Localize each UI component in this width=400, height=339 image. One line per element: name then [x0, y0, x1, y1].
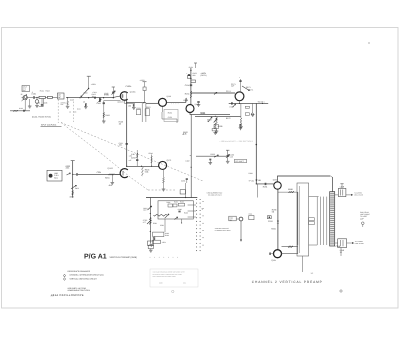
resistor R292 [153, 237, 155, 241]
svg-text:+a: +a [201, 208, 203, 210]
wire to lower deflection plate [347, 242, 354, 244]
attenuator block box [58, 93, 65, 99]
svg-text:TO CH 1: TO CH 1 [258, 100, 265, 103]
dashed switch link vertical [57, 100, 59, 124]
transistor Q101 input follower [35, 100, 39, 104]
input connector J2 ring [23, 95, 28, 100]
svg-text:REFERENCE DRAWINGS: REFERENCE DRAWINGS [68, 270, 91, 273]
grid stopper cluster [99, 97, 101, 102]
svg-text:(DUAL TRACE SYNC): (DUAL TRACE SYNC) [32, 115, 51, 118]
wire switch top bus [146, 197, 197, 199]
svg-text:DC SHIFT: DC SHIFT [236, 160, 245, 163]
wire trigger pickoff TO CH 1 [229, 102, 269, 104]
capacitor C154 marks [190, 84, 192, 86]
plus registration mark [339, 289, 343, 293]
svg-text:.001: .001 [119, 144, 123, 147]
output box inner rail [299, 186, 301, 253]
diode CR101 branch [41, 99, 43, 105]
tube V103A cathode follower [120, 92, 127, 101]
wire VAR row to tube [78, 173, 120, 175]
delay line feed wires [316, 197, 318, 245]
wiper arrow right [174, 217, 178, 220]
neon lamp B172 [251, 113, 253, 115]
assembly label box [22, 86, 30, 92]
variable capacitor C103A [112, 86, 115, 88]
resistor R289 [149, 218, 151, 225]
resistor R242 into tube [109, 174, 115, 176]
resistor R112 column [145, 103, 147, 122]
svg-text:R241: R241 [105, 177, 110, 180]
capacitor C286 [178, 210, 180, 212]
svg-text:5-25: 5-25 [230, 155, 233, 158]
svg-text:C281: C281 [160, 224, 164, 227]
svg-text:BAL: BAL [54, 177, 58, 180]
grid network R243 C243 [136, 150, 138, 166]
svg-text:Q173: Q173 [167, 159, 172, 162]
pin bracket ticks [202, 200, 204, 202]
svg-text:SEMICONDUCTOR TYPES: SEMICONDUCTOR TYPES [68, 289, 91, 292]
wire tube plate up [126, 92, 128, 99]
wire Q143 collector right [166, 101, 186, 103]
wire Q194 to output box [282, 253, 298, 255]
resistor R151 box [191, 80, 196, 83]
bar to L248 connector [335, 194, 339, 196]
wire box bottom stub [301, 256, 303, 272]
range resistor boxes row [168, 204, 173, 207]
svg-text:R281: R281 [153, 222, 157, 225]
range box label [229, 216, 236, 221]
+225V feed VAR [71, 160, 75, 162]
delay line top jogs [309, 196, 319, 198]
svg-text:C193: C193 [268, 220, 273, 223]
svg-text:Q-243: Q-243 [107, 167, 112, 170]
svg-text:R154: R154 [185, 93, 190, 96]
tube V243 half [120, 169, 128, 178]
svg-text:R112: R112 [146, 106, 150, 109]
cathode network C106 R106 [103, 101, 105, 122]
wire gain bus [195, 115, 241, 117]
wire bias row [126, 165, 159, 167]
svg-text:Q194: Q194 [271, 259, 276, 262]
wire Q163 emitter down and right [190, 113, 230, 115]
svg-text:R159: R159 [211, 153, 215, 156]
resistor R111 column [141, 103, 143, 122]
wire L249 down [340, 248, 342, 257]
series resistor box R191 [249, 216, 254, 220]
svg-text:C105: C105 [70, 99, 74, 102]
termination network boxes [309, 218, 315, 221]
neon lamp B191 [239, 217, 243, 221]
resistor R246 column [151, 155, 153, 167]
svg-text:+225V: +225V [140, 79, 146, 82]
transistor Q194 output [274, 250, 282, 258]
gain adj pot [148, 206, 152, 210]
svg-text:C152: C152 [168, 116, 172, 119]
svg-text:TP 184: TP 184 [249, 180, 254, 183]
pot R171 diagonal [242, 86, 250, 91]
svg-text:2.2k: 2.2k [66, 167, 70, 170]
delay line hatched bar [330, 192, 335, 246]
resistor R227 [72, 191, 74, 195]
svg-text:R156: R156 [184, 99, 189, 102]
front panel VAR control [47, 170, 62, 181]
svg-text:Q143: Q143 [167, 95, 171, 98]
svg-text:-150V: -150V [69, 195, 75, 198]
svg-text:C248: C248 [336, 245, 341, 248]
svg-text:P/G A1: P/G A1 [84, 253, 107, 261]
attenuator series resistor [153, 214, 167, 216]
wire to upper deflection plate [346, 194, 353, 196]
svg-text:49.9: 49.9 [109, 184, 113, 187]
resistor R245 vertical [142, 167, 144, 176]
svg-text:C174: C174 [226, 90, 231, 93]
svg-text:CHANNEL 2 ATTENUATOR CIRCUIT: CHANNEL 2 ATTENUATOR CIRCUIT (A2) [70, 274, 104, 277]
left bus of switch [149, 198, 151, 244]
input connector J2 [24, 95, 27, 100]
capacitor C171 above Q174 [240, 79, 242, 92]
wiper arrow and capacitor C222 [67, 173, 71, 175]
svg-text:(DCPL): (DCPL) [201, 74, 207, 77]
small box R184A [180, 190, 185, 194]
svg-text:R103: R103 [46, 89, 50, 92]
output amplifier box [297, 183, 309, 256]
diode CR190 on rail [277, 221, 279, 223]
svg-text:R246: R246 [149, 152, 153, 155]
capacitor C156 with ground [197, 101, 199, 103]
dashed switch link to connector [61, 123, 203, 182]
emitter resistor R178 with ground [163, 169, 165, 177]
capacitor C104 on wire [94, 97, 96, 99]
dotted separator row [149, 256, 152, 259]
resistor R176 box [245, 113, 249, 116]
capacitor C181 [264, 183, 266, 185]
svg-text:R150: R150 [189, 66, 193, 69]
coil marks L249 [340, 240, 342, 246]
ground under R292 [150, 243, 154, 245]
input grid resistor to ground [85, 103, 87, 106]
wire C103 branch down [42, 99, 44, 107]
wire driver bus into Q184 [256, 183, 274, 185]
coax symbol [362, 222, 365, 225]
svg-text:C181: C181 [257, 179, 262, 182]
dc shift boxed label [235, 159, 247, 162]
small box bottom left [148, 245, 153, 248]
svg-text:5.6k: 5.6k [145, 170, 149, 173]
tiny dot artifact [368, 42, 369, 43]
svg-text:R188: R188 [288, 188, 293, 191]
svg-text:820: 820 [193, 74, 196, 77]
step att bal pot [147, 220, 151, 224]
capacitor C101 [33, 96, 35, 98]
svg-text:R171: R171 [246, 86, 251, 89]
svg-text:56: 56 [272, 211, 274, 214]
svg-text:INPUT COUPLING: INPUT COUPLING [41, 124, 57, 127]
svg-text:Q184: Q184 [273, 178, 278, 181]
capacitor C184 on feedback line [186, 178, 188, 180]
svg-text:CHANNEL 2 VERTICAL PREAMP: CHANNEL 2 VERTICAL PREAMP [252, 280, 323, 284]
decoupling stub T [194, 62, 197, 64]
feed diagonal into grid [81, 89, 89, 97]
pot R164 diagonal [208, 117, 212, 122]
ground below R165 [216, 129, 218, 132]
wire dc shift row [196, 155, 226, 157]
svg-text:R194: R194 [271, 228, 276, 231]
svg-text:180: 180 [128, 104, 131, 107]
wire cathode bus [104, 100, 121, 102]
capacitor C153 top [190, 68, 192, 105]
pot arrow inside switch [165, 214, 169, 218]
resistor R177 with ground [240, 103, 242, 118]
svg-text:C177: C177 [230, 105, 235, 108]
box to pins stub wires [188, 204, 196, 206]
svg-text:49.1u: 49.1u [50, 295, 54, 297]
svg-text:R181: R181 [263, 186, 268, 189]
svg-text:C103: C103 [104, 92, 108, 95]
interconnecting plug pins column [195, 198, 198, 201]
svg-text:≈ 100 kHz ADJUST — SEE SEC: ≈ 100 kHz ADJUST — SEE SECTION 5 [219, 140, 252, 143]
diamond symbol 1 [63, 274, 65, 277]
svg-text:A7: A7 [182, 133, 184, 136]
svg-text:C154: C154 [185, 84, 190, 87]
jack pointer arrow [22, 99, 25, 102]
svg-text:Q103A: Q103A [130, 90, 136, 93]
transistor Q163 [186, 105, 194, 113]
registered mark [172, 290, 174, 292]
switch wafer lead down [164, 219, 166, 232]
resistor R173 column with ground [252, 103, 254, 113]
branch resistor R185 out [278, 191, 298, 193]
lower output transformer L249 [338, 239, 347, 248]
transistor Q184 [274, 182, 281, 189]
feedback box T152 [161, 106, 163, 112]
svg-text:+: + [186, 72, 187, 75]
svg-text:.1: .1 [32, 91, 34, 94]
wire lamp down with arrow [240, 221, 242, 240]
main vertical wire from tube output [126, 99, 128, 166]
svg-text:C224: C224 [97, 171, 102, 174]
svg-text:1k: 1k [207, 120, 209, 123]
transistor Q143 [159, 98, 167, 106]
lower network C290 R290 [153, 232, 164, 236]
ground R242 [111, 174, 113, 182]
svg-text:C103A: C103A [126, 85, 133, 88]
wire Q184 emitter down [277, 189, 279, 249]
transistor Q174 [235, 92, 244, 101]
wire from C184 junction [185, 183, 187, 198]
wire into Q143 base [146, 102, 158, 104]
wire top junction row [127, 102, 146, 104]
faint dots row [170, 103, 173, 106]
svg-text:R172: R172 [226, 117, 231, 120]
ferrite bead square [267, 216, 271, 219]
svg-text:C103: C103 [43, 102, 47, 105]
note box [150, 269, 198, 287]
capacitor C111 [126, 142, 128, 144]
capacitor C177 [230, 102, 232, 104]
capacitor C194 left of Q194 [269, 253, 271, 255]
resistor R175 box [245, 106, 249, 108]
wire Q174 emitter down [239, 101, 241, 104]
dashed link 10X [73, 102, 75, 123]
resistor R153 box [187, 76, 190, 79]
resistor R107 drop [67, 98, 69, 101]
svg-text:C182: C182 [185, 160, 189, 163]
svg-text:1.5k: 1.5k [129, 155, 132, 158]
resistor R174 diag [232, 104, 235, 107]
grid resistor R104 and ground [124, 100, 126, 103]
svg-text:R101: R101 [40, 89, 44, 92]
capacitor C172 with ground [240, 116, 242, 124]
svg-text:R106: R106 [106, 114, 110, 117]
svg-text:ADJ: ADJ [143, 209, 146, 212]
bottom stub bend [302, 264, 304, 266]
pot R226 balance [71, 185, 77, 189]
svg-text:R198: R198 [249, 172, 253, 175]
svg-text:BAL: BAL [75, 187, 79, 190]
svg-text:+: + [239, 76, 240, 79]
svg-text:R168: R168 [218, 125, 223, 128]
svg-text:x47: x47 [129, 159, 132, 162]
svg-text:VERTICAL PREAMP (2848): VERTICAL PREAMP (2848) [110, 256, 138, 259]
wire Q184 collector to top [278, 176, 331, 182]
svg-text:VERTICAL SWITCHING CIRCUIT: VERTICAL SWITCHING CIRCUIT [70, 277, 98, 280]
svg-text:483A OSCILLOSCOPE: 483A OSCILLOSCOPE [51, 294, 84, 297]
junction dots on input wire [67, 97, 68, 98]
ground Q101 [36, 103, 38, 105]
resistor R196 bottom branch [282, 246, 298, 248]
ground below input [29, 99, 31, 106]
diamond symbol 2 [63, 278, 65, 281]
svg-text:ATT: ATT [143, 221, 146, 224]
trimmer C160 column [226, 149, 229, 151]
feedback line Q163 to gain switch [190, 114, 192, 197]
svg-text:+225V: +225V [91, 83, 97, 86]
svg-text:1/2: 1/2 [311, 272, 314, 275]
supply box [153, 240, 161, 243]
sync takeoff wire [24, 100, 26, 111]
resistor R154 [190, 91, 192, 98]
wire to Q174 base [191, 92, 235, 94]
stub wire below input [256, 184, 258, 198]
svg-text:C184: C184 [181, 180, 185, 183]
+225V feed for Q143 [143, 81, 147, 83]
resistor R103 [48, 96, 53, 98]
resistor R156 [185, 98, 187, 102]
svg-text:R166: R166 [201, 112, 206, 115]
main bus wire down from Q174 [255, 103, 257, 183]
svg-text:R152: R152 [168, 112, 172, 115]
coil marks L248 [340, 190, 342, 196]
plus 225V feed [87, 75, 91, 77]
resistor R101 [39, 96, 45, 98]
thermistor RT165 [214, 125, 219, 129]
upper output transformer L248 [338, 188, 346, 196]
svg-text:C106: C106 [97, 102, 101, 105]
transistor Q173 [159, 161, 167, 169]
pot R168 vertical branch [215, 116, 216, 117]
right feedback rail [297, 192, 299, 245]
diode CR159 [209, 158, 211, 160]
svg-text:R111: R111 [137, 107, 141, 110]
dashed switch link diagonal [61, 123, 148, 191]
resistor R165 [216, 117, 218, 124]
gain switch box [158, 201, 193, 219]
svg-text:J2: J2 [21, 93, 23, 96]
wire attenuator to amplifier [66, 97, 112, 99]
minus 150V supply box [148, 241, 154, 246]
